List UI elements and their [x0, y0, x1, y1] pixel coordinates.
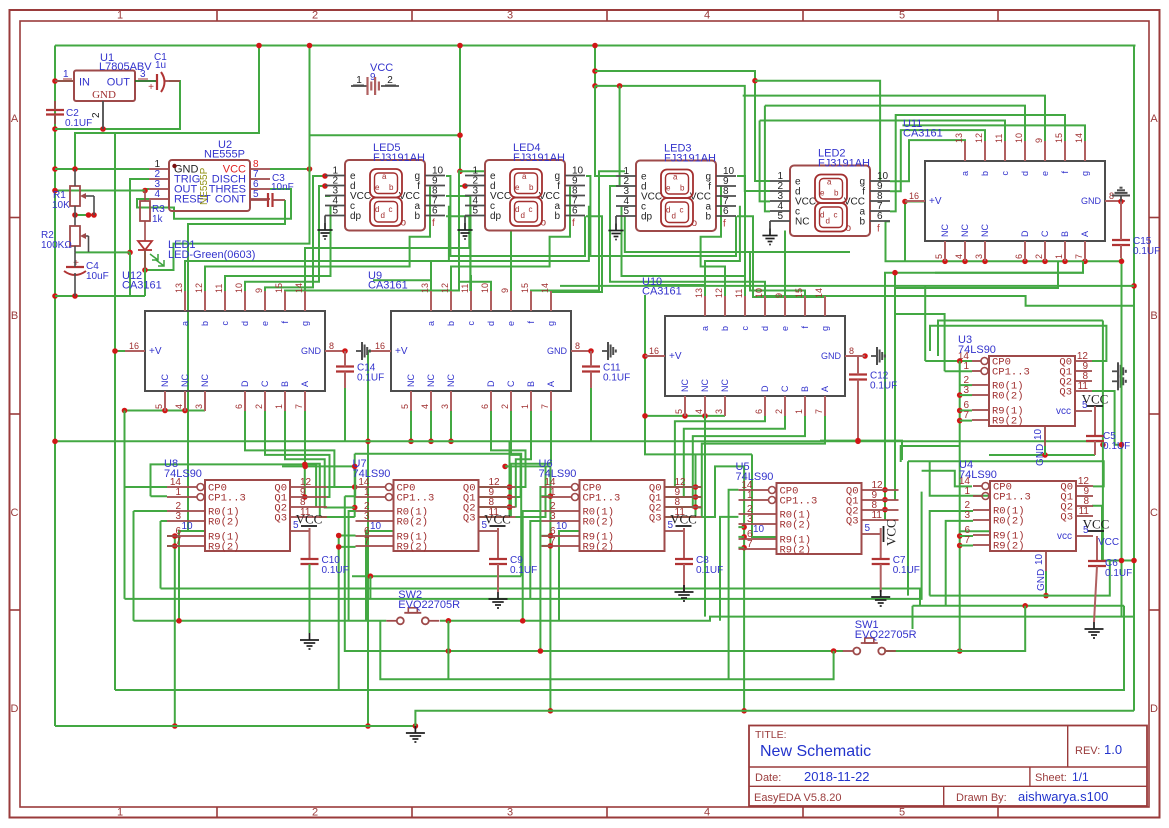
svg-text:D: D	[11, 703, 19, 715]
svg-text:R0(2): R0(2)	[993, 516, 1025, 528]
svg-text:16: 16	[909, 191, 919, 201]
svg-text:74LS90: 74LS90	[958, 344, 996, 356]
svg-text:New Schematic: New Schematic	[760, 743, 871, 760]
svg-text:D: D	[486, 380, 496, 387]
svg-text:10: 10	[181, 521, 193, 532]
svg-text:3: 3	[140, 69, 146, 80]
svg-text:4: 4	[154, 189, 160, 200]
svg-text:R9(2): R9(2)	[583, 542, 615, 554]
svg-text:7: 7	[747, 539, 753, 550]
svg-text:74LS90: 74LS90	[353, 468, 391, 480]
svg-text:5: 5	[623, 206, 629, 217]
svg-text:7: 7	[963, 410, 969, 421]
svg-text:VCC: VCC	[484, 512, 511, 527]
svg-text:c: c	[680, 206, 684, 215]
svg-text:74LS90: 74LS90	[959, 469, 997, 481]
svg-text:2: 2	[387, 75, 393, 86]
svg-text:f: f	[877, 224, 880, 235]
svg-text:GND: GND	[301, 346, 322, 356]
svg-text:d: d	[486, 321, 496, 326]
svg-text:D: D	[760, 385, 770, 392]
svg-text:o: o	[401, 218, 407, 229]
svg-text:D: D	[1150, 703, 1158, 715]
svg-text:6: 6	[723, 206, 729, 217]
svg-text:6: 6	[754, 409, 764, 414]
svg-text:7: 7	[175, 536, 181, 547]
svg-text:10uF: 10uF	[86, 271, 109, 282]
svg-text:a: a	[673, 173, 678, 182]
svg-text:0.1UF: 0.1UF	[322, 565, 349, 576]
svg-text:12: 12	[714, 288, 724, 298]
svg-text:Q3: Q3	[649, 513, 662, 525]
svg-text:LED-Green(0603): LED-Green(0603)	[168, 249, 255, 261]
svg-text:10: 10	[1034, 553, 1045, 565]
svg-text:R9(2): R9(2)	[397, 542, 429, 554]
svg-text:NC: NC	[795, 217, 809, 228]
svg-text:B: B	[800, 386, 810, 392]
svg-text:8: 8	[329, 341, 334, 351]
svg-text:NE555P: NE555P	[199, 167, 210, 205]
svg-text:5: 5	[253, 189, 259, 200]
svg-text:CA3161: CA3161	[368, 280, 408, 292]
svg-text:c: c	[1000, 171, 1010, 176]
svg-text:2: 2	[91, 112, 102, 118]
svg-text:b: b	[389, 183, 394, 192]
svg-text:1: 1	[274, 404, 284, 409]
svg-text:2: 2	[312, 807, 318, 819]
svg-text:CA3161: CA3161	[122, 280, 162, 292]
svg-text:2: 2	[1034, 254, 1044, 259]
svg-text:1: 1	[364, 487, 370, 498]
svg-text:12: 12	[194, 283, 204, 293]
svg-text:C: C	[260, 380, 270, 387]
svg-text:CP1..3: CP1..3	[397, 493, 435, 505]
svg-text:4: 4	[704, 10, 710, 22]
svg-text:1: 1	[1054, 254, 1064, 259]
svg-text:7: 7	[964, 535, 970, 546]
svg-text:6: 6	[877, 211, 883, 222]
svg-text:a: a	[700, 326, 710, 331]
svg-text:NC: NC	[406, 374, 416, 387]
svg-text:10: 10	[754, 288, 764, 298]
svg-text:9: 9	[500, 288, 510, 293]
svg-text:9: 9	[1034, 138, 1044, 143]
svg-text:g: g	[300, 321, 310, 326]
svg-text:d: d	[666, 206, 670, 215]
svg-text:R9(2): R9(2)	[780, 545, 812, 557]
svg-text:VCC: VCC	[884, 519, 899, 546]
svg-text:13: 13	[694, 288, 704, 298]
svg-text:15: 15	[1054, 133, 1064, 143]
svg-text:R0(2): R0(2)	[780, 520, 812, 532]
svg-text:Drawn By:: Drawn By:	[956, 792, 1007, 804]
svg-text:CP1..3: CP1..3	[993, 492, 1031, 504]
svg-text:CP1..3: CP1..3	[583, 493, 621, 505]
svg-text:5: 5	[154, 404, 164, 409]
svg-text:o: o	[541, 218, 547, 229]
svg-text:10: 10	[1014, 133, 1024, 143]
svg-text:aishwarya.s100: aishwarya.s100	[1018, 789, 1108, 804]
svg-text:3: 3	[440, 404, 450, 409]
svg-text:dp: dp	[350, 211, 362, 222]
svg-text:a: a	[522, 172, 527, 181]
svg-text:f: f	[572, 218, 575, 229]
svg-text:R0(2): R0(2)	[208, 517, 240, 529]
svg-text:74LS90: 74LS90	[164, 468, 202, 480]
svg-text:A: A	[820, 386, 830, 392]
svg-text:5: 5	[934, 254, 944, 259]
svg-text:R0(2): R0(2)	[992, 391, 1024, 403]
svg-text:b: b	[680, 184, 685, 193]
svg-text:Q3: Q3	[846, 516, 859, 528]
svg-text:d: d	[515, 205, 519, 214]
svg-text:7: 7	[294, 404, 304, 409]
svg-text:5: 5	[674, 409, 684, 414]
svg-text:14: 14	[540, 283, 550, 293]
svg-text:15: 15	[520, 283, 530, 293]
svg-text:15: 15	[274, 283, 284, 293]
svg-text:5: 5	[472, 206, 478, 217]
svg-text:3: 3	[974, 254, 984, 259]
svg-text:c: c	[466, 321, 476, 326]
svg-text:12: 12	[974, 133, 984, 143]
svg-text:o: o	[846, 223, 852, 234]
svg-text:D: D	[240, 380, 250, 387]
svg-text:CP1..3: CP1..3	[780, 496, 818, 508]
svg-text:+V: +V	[929, 196, 942, 207]
svg-text:NC: NC	[446, 374, 456, 387]
svg-text:d: d	[381, 211, 385, 220]
svg-text:R9(2): R9(2)	[993, 541, 1025, 553]
svg-text:f: f	[723, 219, 726, 230]
svg-text:CP1..3: CP1..3	[208, 493, 246, 505]
svg-text:A: A	[300, 381, 310, 387]
svg-text:NC: NC	[160, 374, 170, 387]
svg-text:13: 13	[420, 283, 430, 293]
svg-text:b: b	[554, 211, 560, 222]
svg-text:d: d	[1020, 171, 1030, 176]
svg-text:EasyEDA V5.8.20: EasyEDA V5.8.20	[754, 792, 841, 804]
svg-text:CA3161: CA3161	[903, 128, 943, 140]
svg-text:d: d	[820, 211, 824, 220]
svg-text:1: 1	[964, 486, 970, 497]
svg-text:A: A	[1150, 113, 1158, 125]
svg-text:+V: +V	[395, 346, 408, 357]
svg-text:2: 2	[254, 404, 264, 409]
svg-text:NC: NC	[940, 224, 950, 237]
svg-text:10: 10	[753, 524, 765, 535]
svg-text:Q3: Q3	[1059, 387, 1072, 399]
svg-text:e: e	[666, 184, 671, 193]
svg-text:3: 3	[714, 409, 724, 414]
svg-text:2018-11-22: 2018-11-22	[804, 769, 870, 784]
svg-text:R9(2): R9(2)	[208, 542, 240, 554]
svg-text:1/1: 1/1	[1072, 770, 1089, 784]
svg-text:VCC: VCC	[1082, 392, 1109, 407]
svg-text:FJ3191AH: FJ3191AH	[818, 158, 870, 170]
svg-text:FJ3191AH: FJ3191AH	[373, 152, 425, 164]
svg-text:4: 4	[704, 807, 710, 819]
svg-text:NE555P: NE555P	[204, 149, 245, 161]
svg-text:0.1UF: 0.1UF	[65, 118, 92, 129]
svg-text:e: e	[780, 326, 790, 331]
svg-text:Date:: Date:	[755, 772, 781, 784]
svg-text:a: a	[426, 321, 436, 326]
svg-text:NC: NC	[680, 379, 690, 392]
svg-text:11: 11	[1079, 506, 1090, 517]
svg-text:4: 4	[954, 254, 964, 259]
svg-text:11: 11	[214, 284, 224, 293]
svg-text:b: b	[529, 183, 534, 192]
svg-text:7: 7	[814, 409, 824, 414]
svg-text:GND: GND	[1081, 196, 1102, 206]
svg-text:C: C	[1150, 507, 1158, 519]
svg-text:CA3161: CA3161	[642, 286, 682, 298]
svg-text:B: B	[526, 381, 536, 387]
svg-text:VCC: VCC	[1083, 517, 1110, 532]
svg-text:2: 2	[774, 409, 784, 414]
svg-text:16: 16	[649, 346, 659, 356]
svg-text:11: 11	[994, 134, 1004, 143]
svg-text:4: 4	[174, 404, 184, 409]
svg-text:13: 13	[954, 133, 964, 143]
svg-text:3: 3	[964, 510, 970, 521]
svg-text:a: a	[827, 178, 832, 187]
svg-text:3: 3	[194, 404, 204, 409]
svg-text:5: 5	[400, 404, 410, 409]
svg-text:6: 6	[432, 206, 438, 217]
svg-text:10: 10	[1033, 428, 1044, 440]
svg-text:0.1UF: 0.1UF	[357, 373, 384, 384]
svg-text:2: 2	[312, 10, 318, 22]
svg-text:CP1..3: CP1..3	[992, 367, 1030, 379]
svg-text:b: b	[859, 217, 865, 228]
svg-text:4: 4	[420, 404, 430, 409]
svg-text:IN: IN	[79, 77, 90, 89]
svg-text:11: 11	[872, 510, 883, 521]
svg-text:d: d	[826, 217, 830, 226]
svg-text:A: A	[11, 113, 19, 125]
svg-text:0.1UF: 0.1UF	[696, 565, 723, 576]
svg-text:Sheet:: Sheet:	[1035, 772, 1067, 784]
svg-text:15: 15	[794, 288, 804, 298]
svg-text:5: 5	[777, 211, 783, 222]
svg-text:R0(2): R0(2)	[583, 517, 615, 529]
svg-text:1: 1	[117, 10, 123, 22]
svg-text:e: e	[375, 183, 380, 192]
svg-text:Q3: Q3	[274, 513, 287, 525]
svg-text:GND: GND	[547, 346, 568, 356]
svg-text:10: 10	[480, 283, 490, 293]
svg-text:+V: +V	[149, 346, 162, 357]
svg-text:d: d	[521, 211, 525, 220]
svg-text:NC: NC	[720, 379, 730, 392]
svg-text:EVQ22705R: EVQ22705R	[398, 599, 460, 611]
svg-text:6: 6	[234, 404, 244, 409]
svg-text:7: 7	[1074, 254, 1084, 259]
svg-text:NC: NC	[180, 374, 190, 387]
svg-text:e: e	[506, 321, 516, 326]
svg-text:6: 6	[572, 206, 578, 217]
svg-text:+V: +V	[669, 351, 682, 362]
svg-text:NC: NC	[700, 379, 710, 392]
svg-text:c: c	[740, 326, 750, 331]
svg-text:0.1UF: 0.1UF	[870, 381, 897, 392]
svg-text:g: g	[1080, 171, 1090, 176]
svg-text:e: e	[515, 183, 520, 192]
svg-text:11: 11	[460, 284, 470, 293]
svg-text:0.1UF: 0.1UF	[1105, 568, 1132, 579]
svg-text:c: c	[834, 211, 838, 220]
svg-text:B: B	[280, 381, 290, 387]
svg-text:1: 1	[963, 361, 969, 372]
svg-text:1: 1	[63, 69, 69, 80]
svg-text:14: 14	[1074, 133, 1084, 143]
svg-text:2: 2	[500, 404, 510, 409]
svg-text:16: 16	[375, 341, 385, 351]
svg-text:OUT: OUT	[107, 77, 131, 89]
svg-text:dp: dp	[490, 211, 502, 222]
svg-text:c: c	[389, 205, 393, 214]
svg-text:10: 10	[234, 283, 244, 293]
svg-text:1u: 1u	[155, 60, 166, 71]
svg-text:1: 1	[550, 487, 556, 498]
svg-text:vcc: vcc	[1056, 406, 1071, 417]
svg-text:5: 5	[865, 523, 871, 534]
svg-text:e: e	[1040, 171, 1050, 176]
svg-text:C: C	[1040, 230, 1050, 237]
svg-text:vcc: vcc	[1057, 531, 1072, 542]
svg-text:1: 1	[175, 487, 181, 498]
svg-text:b: b	[200, 321, 210, 326]
svg-text:C: C	[780, 385, 790, 392]
svg-text:c: c	[220, 321, 230, 326]
svg-text:g: g	[546, 321, 556, 326]
svg-text:1k: 1k	[152, 214, 164, 225]
svg-text:1: 1	[117, 807, 123, 819]
svg-text:4: 4	[694, 409, 704, 414]
svg-text:0.1UF: 0.1UF	[510, 565, 537, 576]
svg-text:d: d	[240, 321, 250, 326]
svg-text:VCC: VCC	[670, 512, 697, 527]
svg-text:8: 8	[575, 341, 580, 351]
svg-text:10: 10	[556, 521, 568, 532]
svg-text:VCC: VCC	[1098, 537, 1119, 548]
svg-text:0.1UF: 0.1UF	[1103, 441, 1130, 452]
svg-text:b: b	[980, 171, 990, 176]
svg-text:12: 12	[440, 283, 450, 293]
svg-text:11: 11	[734, 289, 744, 298]
svg-text:CONT: CONT	[215, 194, 246, 206]
svg-text:FJ3191AH: FJ3191AH	[664, 153, 716, 165]
svg-text:9: 9	[254, 288, 264, 293]
svg-text:d: d	[760, 326, 770, 331]
svg-text:a: a	[960, 171, 970, 176]
svg-text:B: B	[1150, 310, 1157, 322]
svg-text:Q3: Q3	[1060, 512, 1073, 524]
svg-text:VCC: VCC	[296, 512, 323, 527]
svg-text:10nF: 10nF	[271, 182, 294, 193]
svg-text:NC: NC	[960, 224, 970, 237]
svg-text:0.1UF: 0.1UF	[1133, 246, 1160, 257]
svg-text:1: 1	[520, 404, 530, 409]
svg-text:C: C	[11, 507, 19, 519]
svg-text:EVQ22705R: EVQ22705R	[855, 629, 917, 641]
svg-text:GND: GND	[1036, 569, 1047, 591]
svg-text:3: 3	[507, 807, 513, 819]
svg-text:A: A	[546, 381, 556, 387]
svg-text:5: 5	[332, 206, 338, 217]
svg-text:b: b	[720, 326, 730, 331]
svg-text:e: e	[260, 321, 270, 326]
svg-text:o: o	[692, 218, 698, 229]
svg-text:c: c	[529, 205, 533, 214]
svg-text:10K: 10K	[52, 200, 70, 211]
svg-text:NC: NC	[980, 224, 990, 237]
svg-text:Q3: Q3	[463, 513, 476, 525]
svg-text:9: 9	[774, 293, 784, 298]
svg-text:g: g	[820, 326, 830, 331]
svg-text:16: 16	[129, 341, 139, 351]
svg-text:GND: GND	[1035, 444, 1046, 466]
svg-text:REV:: REV:	[1075, 745, 1100, 757]
svg-text:a: a	[382, 172, 387, 181]
svg-text:dp: dp	[641, 212, 653, 223]
svg-text:0.1UF: 0.1UF	[603, 373, 630, 384]
svg-text:R9(2): R9(2)	[992, 416, 1024, 428]
svg-text:0.1UF: 0.1UF	[893, 565, 920, 576]
svg-text:3: 3	[963, 385, 969, 396]
svg-text:FJ3191AH: FJ3191AH	[513, 152, 565, 164]
svg-text:6: 6	[1014, 254, 1024, 259]
svg-text:11: 11	[1078, 381, 1089, 392]
svg-text:5: 5	[899, 807, 905, 819]
svg-text:+: +	[148, 82, 154, 93]
svg-text:B: B	[11, 310, 18, 322]
svg-text:A: A	[1080, 231, 1090, 237]
svg-text:7: 7	[550, 536, 556, 547]
svg-text:74LS90: 74LS90	[736, 471, 774, 483]
svg-text:7: 7	[364, 536, 370, 547]
svg-text:7: 7	[540, 404, 550, 409]
svg-text:D: D	[1020, 230, 1030, 237]
svg-text:NC: NC	[426, 374, 436, 387]
svg-text:100KΩ: 100KΩ	[41, 240, 72, 251]
svg-text:b: b	[446, 321, 456, 326]
svg-text:d: d	[375, 205, 379, 214]
svg-text:GND: GND	[92, 89, 116, 101]
svg-text:d: d	[672, 212, 676, 221]
svg-text:14: 14	[814, 288, 824, 298]
svg-text:8: 8	[849, 346, 854, 356]
svg-text:C: C	[506, 380, 516, 387]
svg-text:a: a	[180, 321, 190, 326]
svg-text:6: 6	[480, 404, 490, 409]
svg-text:TITLE:: TITLE:	[755, 729, 787, 741]
svg-text:b: b	[834, 189, 839, 198]
svg-text:74LS90: 74LS90	[539, 468, 577, 480]
svg-text:e: e	[820, 189, 825, 198]
svg-text:1.0: 1.0	[1104, 742, 1122, 757]
svg-text:3: 3	[507, 10, 513, 22]
svg-text:B: B	[1060, 231, 1070, 237]
svg-text:13: 13	[174, 283, 184, 293]
svg-text:1: 1	[747, 490, 753, 501]
svg-text:GND: GND	[821, 351, 842, 361]
svg-text:1: 1	[794, 409, 804, 414]
svg-text:f: f	[432, 218, 435, 229]
svg-text:1: 1	[356, 75, 362, 86]
